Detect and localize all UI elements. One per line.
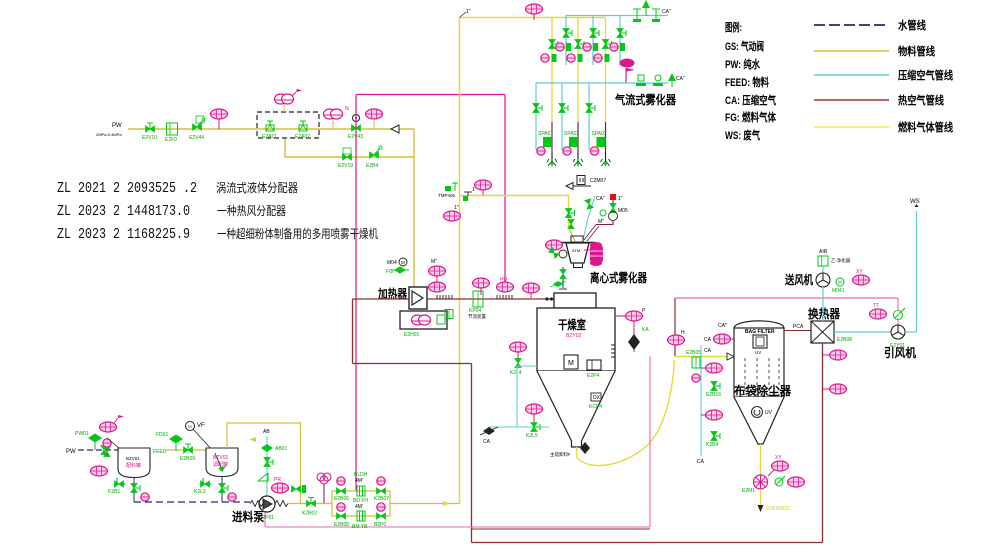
green box on product line: [686, 350, 701, 368]
oval group above duct 2: [473, 278, 490, 295]
fan oval: [853, 269, 870, 285]
cyan purge line left upper: [517, 365, 537, 367]
svg-text:BZY02: BZY02: [566, 333, 582, 339]
exchanger bottom drop: [822, 343, 824, 543]
ID fan: [891, 325, 905, 339]
oval instrument: [366, 109, 383, 129]
nozzle assembly 2: [563, 131, 583, 167]
svg-text:FEED: 物料: FEED: 物料: [725, 75, 769, 89]
svg-text:FINISHED: FINISHED: [766, 506, 790, 512]
oval on exhaust: [668, 330, 686, 345]
legend line fuel gas: [814, 126, 889, 128]
manifold stubs: [325, 503, 332, 505]
svg-text:E2B05: E2B05: [686, 350, 701, 356]
svg-text:K2L5: K2L5: [526, 433, 538, 439]
product out arrow: [760, 489, 762, 505]
recirc bottom duct: [472, 542, 823, 544]
UV circle in cone: [752, 407, 773, 418]
pink line to ID fan: [675, 297, 898, 299]
svg-text:K2B4: K2B4: [706, 442, 718, 448]
svg-text:E2P4: E2P4: [587, 373, 599, 379]
mixer pair row2 n2: [567, 54, 583, 62]
green diamond on AB: [261, 444, 287, 452]
svg-text:KA: KA: [642, 327, 649, 333]
svg-text:M05: M05: [618, 208, 628, 214]
yellow horizontal into filter: [675, 356, 735, 358]
svg-text:E2B08: E2B08: [837, 337, 852, 343]
PW supply label: [96, 123, 122, 137]
atomizer top small boxes: [571, 236, 583, 242]
suction dashed line: [134, 501, 250, 503]
svg-text:AB01: AB01: [275, 446, 287, 452]
svg-text:CA: CA: [697, 459, 705, 465]
pump zigzag right: [275, 501, 288, 507]
legend line compressed air: [814, 74, 889, 76]
svg-text:1": 1": [454, 205, 459, 211]
flange dots: [545, 297, 548, 300]
svg-text:E2F0: E2F0: [165, 137, 177, 143]
top yellow header: [460, 17, 606, 19]
louver on right wall: [611, 345, 615, 357]
svg-text:CA″: CA″: [662, 9, 671, 15]
svg-text:物料管线: 物料管线: [898, 44, 935, 58]
svg-text:SPA03: SPA03: [592, 131, 607, 137]
oval before ID fan: [870, 303, 887, 319]
reducing valve: [189, 116, 205, 141]
diamond at cone tip: [580, 442, 590, 454]
svg-text:M04: M04: [387, 260, 397, 266]
valves on yellow drops: [549, 40, 558, 49]
bottom branch valve 2: [374, 503, 386, 528]
svg-text:K2B1: K2B1: [108, 489, 120, 495]
svg-text:N: N: [345, 106, 349, 112]
svg-text:FG: FG: [386, 269, 393, 275]
control valve circle slash: [894, 308, 906, 320]
pipe PW horizontal: [128, 128, 414, 130]
M circle on FG: [387, 258, 407, 266]
svg-text:ZL 2023 2 1168225.9: ZL 2023 2 1168225.9: [57, 227, 190, 243]
oval branch 2: [701, 410, 723, 420]
filter body: [734, 328, 784, 397]
svg-text:FEED: FEED: [153, 449, 167, 455]
small valve left of manifold: [292, 485, 307, 493]
riser to heater: [352, 299, 354, 364]
heater box: [409, 287, 427, 309]
valve branch 2: [711, 432, 720, 441]
VF circle: [186, 422, 206, 431]
PW dashed line: [78, 449, 118, 451]
mixer pair row1 n2: [583, 43, 598, 51]
PW flush drop dashed navy: [562, 267, 564, 288]
cyan drop tier2 n3: [588, 83, 590, 150]
nozzle assembly 3: [590, 131, 610, 167]
vortex liquid distributor dashed box: [257, 112, 319, 138]
svg-text:干燥室: 干燥室: [558, 317, 586, 332]
maroon elbow to atomizer: [596, 220, 613, 225]
svg-text:图例:: 图例:: [725, 20, 742, 34]
svg-text:K2B02: K2B02: [302, 511, 317, 517]
oval at rotary: [768, 455, 789, 476]
instrument oval on stem: [211, 109, 228, 129]
legend line hot air: [814, 99, 889, 101]
svg-text:PW: PW: [66, 449, 76, 455]
CA header end symbols: [633, 9, 641, 22]
nozzle assembly 1: [537, 131, 557, 167]
duct filter to exchanger: [784, 330, 811, 332]
tank 2: [206, 448, 238, 477]
bag dashed columns: [745, 358, 779, 395]
FG diamond inlet: [386, 266, 409, 275]
drop from pink line to valve: [897, 298, 899, 311]
svg-text:ZL 2021 2 2093525 .2: ZL 2021 2 2093525 .2: [57, 181, 197, 197]
svg-text:E2A01: E2A01: [262, 134, 277, 140]
tank1 drain circle: [141, 493, 149, 501]
drop to diamond: [633, 321, 635, 352]
feed line to tank2: [165, 449, 206, 451]
cyan CA header lower: [536, 82, 668, 84]
cyan stub 2: [592, 16, 594, 66]
breather 2 in box: [295, 121, 310, 140]
tank1 bottom drop: [133, 478, 135, 503]
svg-text:PW: PW: [112, 123, 122, 129]
svg-text:PW01: PW01: [75, 431, 89, 437]
tank2 angle valve: [194, 478, 211, 495]
svg-text:BZV02: BZV02: [213, 455, 229, 461]
valve on CA diagonal: [585, 199, 594, 209]
svg-text:M: M: [838, 280, 842, 285]
svg-text:M″: M″: [431, 259, 437, 265]
svg-text:BAG FILTER: BAG FILTER: [745, 329, 775, 335]
strainer box: [165, 123, 178, 143]
cyan drop tier2 n1: [535, 83, 537, 150]
recirc left riser: [471, 364, 473, 543]
chamber body: [537, 308, 615, 371]
svg-text:CA: CA: [704, 337, 712, 343]
svg-text:E2M1: E2M1: [742, 488, 755, 494]
valves tier2: [533, 104, 542, 113]
outlet oval: [626, 308, 647, 321]
oval instrument left: [444, 205, 461, 221]
tank1 angle valve: [108, 478, 125, 495]
svg-text:1": 1": [466, 9, 471, 15]
maroon overlay line: [472, 528, 651, 530]
valves on cyan stubs: [563, 29, 572, 38]
svg-text:一种热风分配器: 一种热风分配器: [217, 204, 286, 218]
svg-text:SPA01: SPA01: [538, 131, 553, 137]
valve at branch start: [445, 183, 458, 191]
mixer pair row2 n3: [594, 54, 610, 62]
yellow drop 1: [551, 18, 553, 123]
magenta feed riser left: [355, 95, 357, 491]
AB cyan drop to pump: [266, 436, 268, 496]
outlet stub: [615, 315, 628, 317]
svg-text:换热器: 换热器: [808, 306, 841, 321]
svg-text:一种超细粉体制备用的多用喷雾干燥机: 一种超细粉体制备用的多用喷雾干燥机: [217, 226, 378, 241]
cyan CA drop left of filter: [700, 345, 702, 456]
heat exchanger box: [811, 321, 834, 343]
cloud instrument above box: [275, 89, 303, 112]
svg-text:M041: M041: [832, 288, 845, 294]
cyan drop tier2 n2: [561, 83, 563, 150]
maroon exhaust vertical: [674, 298, 676, 356]
valve on AB: [264, 458, 273, 467]
mixer pair row1 n1: [556, 43, 571, 51]
svg-text:DX: DX: [593, 395, 601, 401]
comb 2: [497, 295, 512, 299]
tank2 recirc elbow yellow: [227, 423, 301, 504]
pump discharge yellow: [288, 503, 332, 505]
tank2 drain circle: [228, 493, 236, 501]
svg-text:E2V44: E2V44: [189, 135, 204, 141]
burner box below heater: [400, 311, 447, 329]
CA diagonal to atomizer: [583, 196, 595, 240]
valve on feed line: [180, 444, 195, 462]
regulator angle on AB: [258, 473, 268, 481]
M circle: [832, 278, 845, 294]
main feed riser: [459, 18, 461, 504]
atomizer left oval: [546, 240, 563, 250]
oval above lower valve: [526, 404, 543, 422]
svg-text:GS: 气动阀: GS: 气动阀: [725, 39, 764, 53]
svg-text:离心式雾化器: 离心式雾化器: [590, 270, 648, 285]
atomizer left circle: [559, 250, 567, 258]
svg-text:主塔卸料F: 主塔卸料F: [550, 451, 571, 458]
yellow drop 2: [577, 18, 579, 123]
flow arrow on PW line: [391, 125, 399, 133]
supply fan: [822, 266, 824, 273]
VF diagonal to tank2: [193, 429, 213, 451]
WS riser: [916, 211, 918, 332]
svg-text:M″: M″: [598, 219, 604, 225]
slash circle at rotary: [775, 476, 785, 486]
second yellow line to heater: [285, 139, 414, 157]
cyan stub 1: [565, 16, 567, 66]
oval group above duct 1: [429, 282, 446, 292]
mixer pair row1 n3: [610, 43, 625, 51]
svg-text:气流式雾化器: 气流式雾化器: [614, 92, 677, 107]
fan to exchanger duct: [822, 287, 824, 321]
green dot on branch: [463, 196, 468, 201]
chamber cone: [537, 371, 615, 447]
pulse box inside: [753, 335, 767, 348]
tank2 bottom drop: [221, 477, 223, 503]
heater triangle: [412, 291, 423, 305]
oval instrument on branch: [475, 180, 492, 195]
top branch valve 1: [334, 477, 349, 502]
left instrument oval with valve: [510, 342, 527, 359]
green diamond on feed: [156, 432, 183, 451]
svg-text:E2V19: E2V19: [338, 163, 353, 169]
rotary valve below filter cone: [760, 444, 762, 475]
svg-text:CA: CA: [704, 348, 712, 354]
svg-text:CA″: CA″: [596, 196, 605, 202]
svg-text:TMP406: TMP406: [438, 193, 456, 198]
svg-text:PU: PU: [500, 277, 507, 283]
svg-text:水管线: 水管线: [898, 18, 926, 32]
svg-text:涡流式液体分配器: 涡流式液体分配器: [216, 180, 298, 195]
svg-text:燃料气体管线: 燃料气体管线: [897, 120, 953, 134]
svg-text:BZV01: BZV01: [126, 456, 140, 461]
cyan CA header upper: [566, 15, 668, 17]
oval on top header: [526, 4, 543, 20]
svg-text:M: M: [188, 424, 192, 429]
yellow flow dot: [443, 501, 450, 506]
svg-text:FG: 燃料气体: FG: 燃料气体: [725, 110, 777, 124]
svg-text:进料泵: 进料泵: [232, 509, 264, 524]
svg-text:XY: XY: [856, 269, 863, 275]
svg-text:B2P0: B2P0: [374, 522, 386, 528]
DX tag in cone: [589, 393, 602, 410]
svg-text:E2B06: E2B06: [334, 496, 349, 502]
svg-text:4M′: 4M′: [355, 478, 363, 484]
svg-text:FD01: FD01: [156, 432, 168, 438]
valve after pump: [302, 498, 317, 517]
svg-text:引风机: 引风机: [884, 345, 916, 360]
top branch valve 2: [374, 477, 389, 502]
svg-text:K2L3: K2L3: [194, 489, 206, 495]
fan to WS riser: [905, 331, 917, 333]
yellow drop to heater: [413, 129, 415, 288]
box2 inside: [587, 360, 601, 379]
oval right pair: [523, 283, 540, 298]
black diamond filter: [628, 334, 640, 350]
svg-text:XY: XY: [775, 455, 782, 461]
manifold ring: [332, 491, 390, 516]
cyan purge line lower with CA inlet: [489, 426, 549, 428]
oval above heater: [429, 259, 446, 287]
tag at riser top: [460, 9, 471, 18]
svg-text:1": 1": [618, 196, 623, 202]
svg-text:送风机: 送风机: [784, 272, 813, 287]
svg-text:2MPa-0.4MPa: 2MPa-0.4MPa: [96, 132, 122, 137]
bottom branch valve 1: [334, 503, 349, 528]
throttling device green box: [468, 291, 486, 320]
relief valve circle-top: [348, 115, 363, 141]
maroon branch right of exchanger: [822, 529, 824, 543]
green box at burner right: [445, 310, 453, 319]
svg-text:WS: WS: [910, 199, 920, 205]
recirc top duct: [353, 363, 472, 365]
valve on lower purge: [531, 423, 540, 432]
CIP rosette: [317, 473, 331, 503]
tank 1: [118, 448, 150, 478]
pink bottom line: [265, 526, 650, 528]
magenta top header: [356, 94, 505, 96]
slash valve on second line: [366, 146, 382, 169]
mixer pair row2 n1: [541, 54, 557, 62]
exchanger to ID fan cyan: [834, 331, 891, 333]
hot air line: [427, 298, 554, 300]
green valve below oval: [549, 248, 560, 259]
breather 1 in box: [262, 121, 277, 140]
svg-text:M: M: [401, 260, 405, 265]
pink riser right: [649, 357, 651, 528]
svg-text:CA‴: CA‴: [718, 323, 727, 329]
pump zigzag left: [250, 501, 263, 507]
svg-text:E2B4: E2B4: [366, 163, 378, 169]
svg-text:CA: CA: [483, 439, 491, 445]
svg-text:PW: 纯水: PW: 纯水: [725, 57, 761, 71]
WS outlet: [910, 199, 920, 207]
valve on second line: [338, 148, 353, 169]
valves on atomizer feed drop: [565, 209, 574, 218]
svg-text:E2B08: E2B08: [334, 522, 349, 528]
svg-text:PR: PR: [274, 477, 281, 483]
svg-text:4M′: 4M′: [355, 504, 363, 510]
oval right of rotary: [788, 477, 805, 487]
chamber top hat: [554, 293, 596, 308]
burner green tag: [437, 315, 445, 324]
svg-text:CA: 压缩空气: CA: 压缩空气: [725, 93, 776, 107]
svg-text:ATM: ATM: [572, 248, 580, 253]
svg-text:KCP4: KCP4: [589, 404, 602, 410]
valve on PW dashed: [101, 446, 107, 455]
tank1 left oval: [91, 466, 108, 476]
sample point T: [464, 187, 477, 196]
svg-text:配料罐: 配料罐: [126, 462, 141, 469]
oval on recirc drop 1: [823, 350, 847, 360]
svg-text:E2B09: E2B09: [180, 456, 195, 462]
flow indicator circles: [600, 210, 606, 216]
tank1 top instrument stack: [100, 415, 125, 432]
filter dome: [734, 321, 784, 328]
svg-text:UV: UV: [755, 350, 761, 355]
CA up arrow: [642, 0, 650, 16]
cyan stub 3: [619, 16, 621, 66]
svg-text:E2B16: E2B16: [706, 392, 721, 398]
valve branch 1: [711, 382, 720, 391]
svg-text:E2H01: E2H01: [404, 332, 420, 338]
svg-text:M: M: [568, 360, 574, 367]
green diamond on PW: [75, 431, 102, 450]
pink drop at pump: [264, 510, 266, 527]
svg-text:UV: UV: [765, 410, 773, 416]
feed pump: [259, 496, 275, 521]
M motor box inside: [564, 355, 578, 369]
lower header end symbols: [636, 75, 646, 86]
svg-text:K2L4: K2L4: [510, 370, 522, 376]
svg-text:CA″: CA″: [676, 76, 685, 82]
legend line material: [814, 50, 889, 52]
svg-text:热空气管线: 热空气管线: [898, 93, 944, 107]
heater left duct: [353, 298, 410, 300]
tank2 inner agitator: [215, 453, 222, 470]
purge arrow: [566, 183, 591, 190]
svg-text:BLDH: BLDH: [354, 472, 368, 478]
magenta circle below box: [692, 374, 700, 382]
AB air tag: [249, 429, 270, 442]
svg-text:TT: TT: [873, 303, 879, 309]
atomizer top plate: [560, 242, 595, 244]
bottom branch box: [352, 504, 368, 530]
oval branch 1: [701, 363, 723, 373]
flag instrument above lower CA header: [620, 59, 636, 84]
legend line water dashed: [814, 24, 889, 26]
FG drop with valve: [612, 200, 614, 212]
air intake green box: [818, 249, 851, 266]
comb 1: [437, 295, 452, 299]
svg-text:C2M07: C2M07: [590, 178, 606, 184]
atomizer motor blob magenta: [590, 242, 603, 266]
cloud pump bubble: [324, 106, 350, 129]
svg-text:E2V10: E2V10: [142, 135, 157, 141]
yellow flex hose to atomizer: [569, 228, 576, 241]
CA diamond lower left: [480, 427, 498, 445]
top branch box: [353, 472, 368, 504]
svg-text:AB: AB: [263, 429, 270, 435]
svg-text:K2B07: K2B07: [374, 496, 389, 502]
svg-text:BM YB: BM YB: [352, 524, 368, 530]
